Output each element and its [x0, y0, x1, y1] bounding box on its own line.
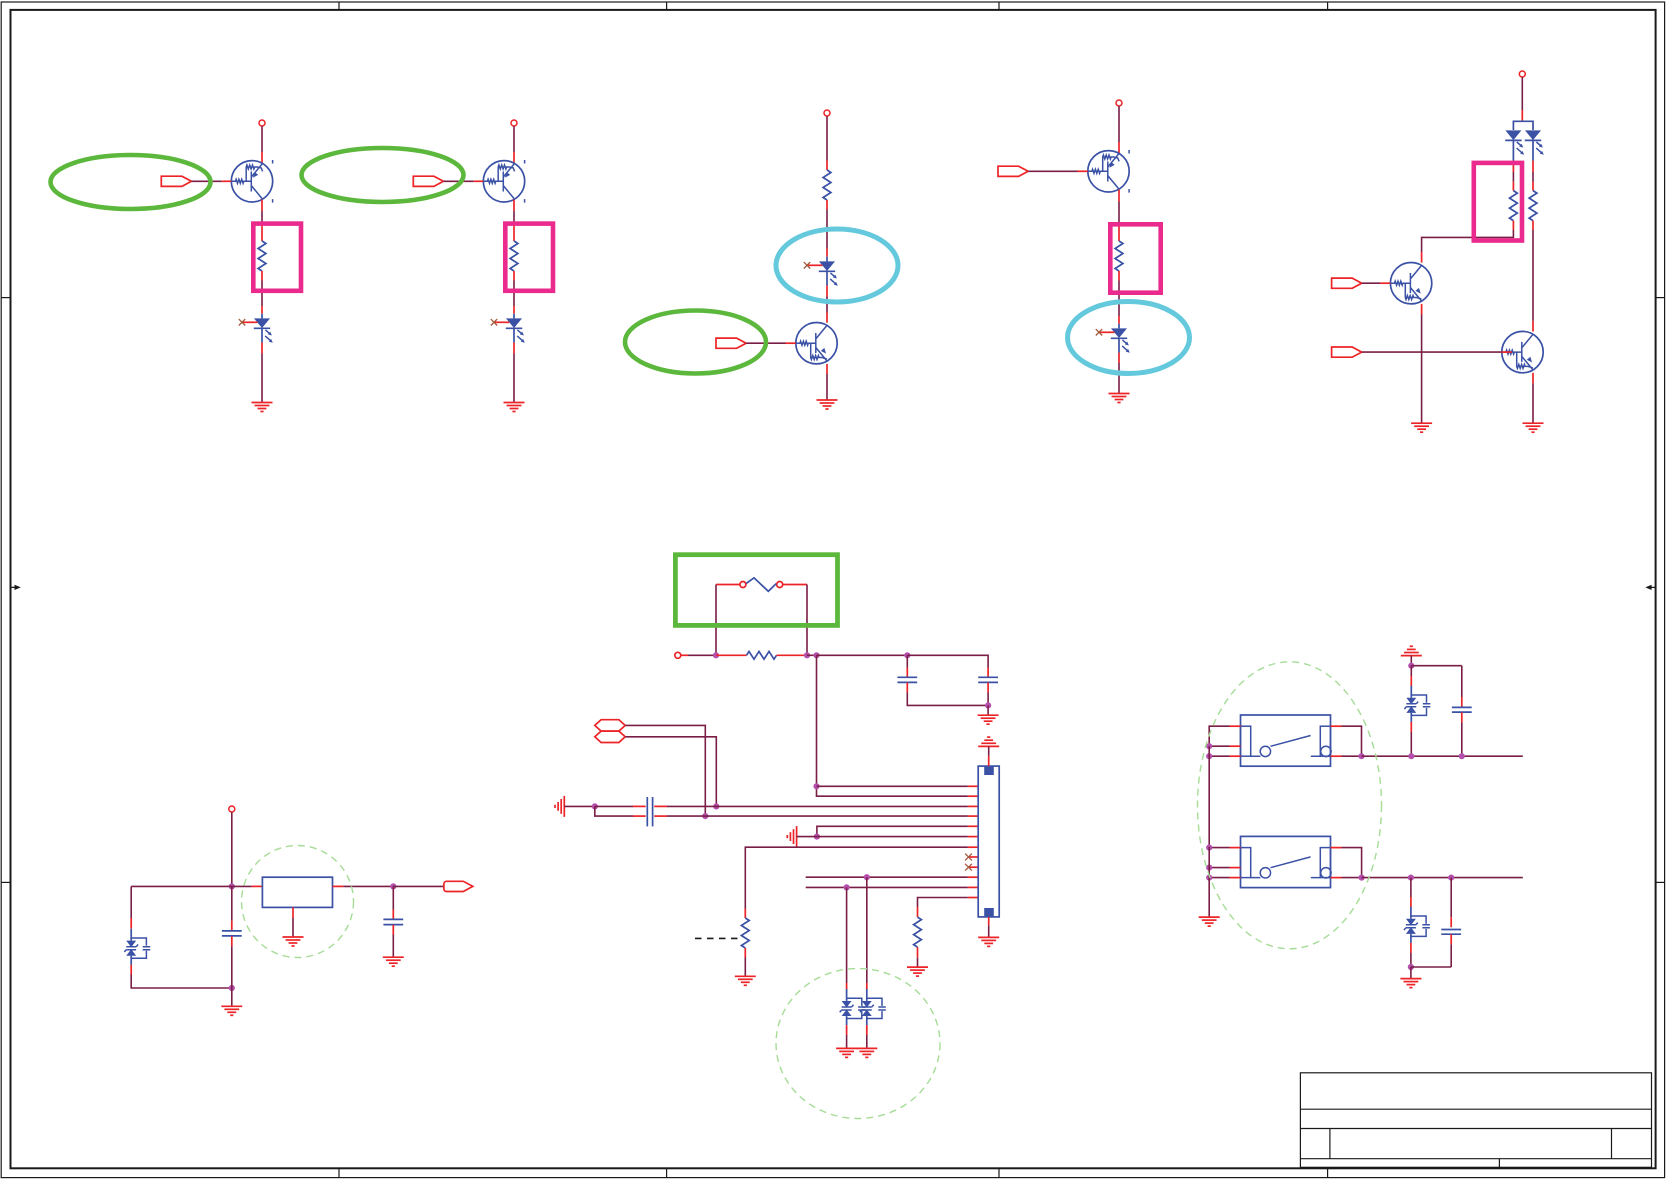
port IN1 [161, 176, 191, 186]
ground [735, 976, 756, 985]
wire [564, 805, 595, 807]
pin [513, 306, 515, 314]
highlight box (pink) around R1 [253, 224, 301, 291]
highlight ellipse (green) around IN2 [302, 148, 464, 202]
junction [864, 874, 870, 880]
port IN3 [716, 338, 746, 348]
pin [968, 815, 978, 817]
dual LED anode bridge [1513, 121, 1533, 130]
junction [702, 813, 708, 819]
pin [681, 654, 688, 656]
pin [968, 805, 978, 807]
pin [744, 909, 746, 919]
wire [130, 886, 132, 918]
wire [797, 836, 968, 838]
wire [907, 655, 988, 667]
pin [826, 286, 828, 297]
wire [688, 654, 716, 656]
wire [513, 281, 515, 307]
capacitor C8 [1452, 666, 1472, 757]
ground [817, 400, 838, 409]
wire [918, 898, 968, 908]
wire [1209, 745, 1229, 747]
junction [1206, 753, 1212, 759]
pin [261, 271, 263, 281]
wire [261, 281, 263, 307]
LED D5 [1505, 130, 1524, 160]
junction [814, 834, 820, 840]
fuse F1 [740, 578, 783, 592]
pin [261, 152, 263, 163]
ground [1199, 917, 1220, 926]
wire [1532, 230, 1534, 321]
pin [1421, 252, 1423, 263]
off-page port CANH [595, 720, 625, 731]
wire [625, 737, 716, 807]
wire [1422, 230, 1514, 252]
wire [1362, 282, 1380, 284]
pin [1410, 722, 1412, 732]
pin [1502, 351, 1512, 353]
ground [504, 403, 525, 412]
pin [786, 342, 796, 344]
wire [1521, 77, 1523, 110]
pin [716, 654, 747, 656]
pin [261, 222, 263, 242]
wire [1532, 172, 1534, 182]
pin [968, 785, 978, 787]
ground [836, 1048, 857, 1057]
pin [513, 222, 515, 242]
highlight ellipse (green) around IN3 [625, 311, 766, 374]
junction [1459, 753, 1465, 759]
junction [229, 985, 235, 991]
junction [985, 702, 991, 708]
wire [1512, 172, 1514, 182]
pin [130, 918, 132, 929]
wire [1410, 953, 1412, 967]
ground (inverted) [1401, 646, 1422, 655]
wire [261, 354, 263, 403]
junction [1358, 753, 1364, 759]
pin [1230, 867, 1241, 869]
TVS diode Z1 [840, 989, 866, 1025]
wire [1411, 665, 1462, 667]
wire [1410, 967, 1412, 978]
pin [968, 836, 978, 838]
wire [1362, 755, 1523, 757]
pin [917, 907, 919, 917]
pin [777, 654, 808, 656]
ground (rotated) [787, 826, 796, 847]
pin [826, 364, 828, 374]
port IN4 [998, 166, 1028, 176]
pin [1230, 877, 1241, 879]
pin [1532, 221, 1534, 230]
wire [1532, 383, 1534, 423]
power pin P1 [259, 120, 265, 126]
wire [846, 1035, 848, 1048]
wire [1208, 746, 1210, 847]
capacitor C2 [978, 668, 998, 693]
pin [1230, 755, 1241, 757]
pin [866, 1025, 868, 1035]
wire [988, 746, 990, 756]
pin [1410, 943, 1412, 953]
pin [261, 343, 263, 354]
pin [826, 161, 828, 171]
pin [513, 271, 515, 281]
wire [1209, 755, 1229, 757]
pin [1118, 222, 1120, 241]
junction [229, 883, 235, 889]
highlight ellipse (dashed) around SW1/SW2 [1198, 662, 1382, 949]
pin [1532, 182, 1534, 191]
wire [1028, 170, 1077, 172]
junction [813, 652, 819, 658]
pin [292, 907, 294, 918]
pin [1380, 282, 1390, 284]
junction [1408, 964, 1414, 970]
pin [1118, 316, 1120, 324]
wire [261, 126, 263, 152]
wire [1410, 732, 1412, 756]
TVS diode Z2 [860, 989, 886, 1025]
ground [978, 937, 999, 946]
junction [1206, 845, 1212, 851]
ground (inverted) [978, 737, 999, 746]
junction [844, 884, 850, 890]
wire [261, 211, 263, 222]
wire [1209, 867, 1229, 869]
wire [907, 693, 988, 706]
wire [817, 655, 968, 796]
pin [333, 885, 344, 887]
pin [1078, 170, 1088, 172]
port IN6 [1332, 347, 1362, 357]
ground [283, 937, 304, 946]
wire [595, 805, 633, 807]
wire [745, 847, 968, 908]
junction [592, 803, 598, 809]
pin [968, 886, 978, 888]
junction [804, 652, 810, 658]
ground [856, 1048, 877, 1057]
junction [713, 652, 719, 658]
capacitor C3 [633, 797, 667, 826]
pin [1421, 304, 1423, 315]
highlight box (pink) around R2 [505, 224, 553, 291]
pin [968, 897, 978, 899]
wire [744, 958, 746, 977]
wire [513, 354, 515, 403]
capacitor C9 [1441, 878, 1461, 967]
wire [1118, 106, 1120, 142]
capacitor C1 [897, 655, 917, 692]
pin [826, 249, 828, 257]
junction [1206, 865, 1212, 871]
wire [231, 988, 233, 1006]
junction [1448, 875, 1454, 881]
transistor Q4 [1088, 150, 1129, 193]
port IN5 [1332, 278, 1362, 288]
ground [221, 1006, 242, 1015]
ground [907, 967, 928, 976]
pin [1230, 745, 1241, 747]
wire [1421, 315, 1423, 424]
pin [968, 795, 978, 797]
junction [1408, 753, 1414, 759]
pin [261, 200, 263, 211]
port IN2 [413, 176, 443, 186]
wire [1209, 847, 1229, 849]
pin [826, 313, 828, 323]
wire [866, 877, 868, 983]
wire [988, 925, 990, 937]
pin [716, 584, 740, 586]
highlight ellipse (green) around IN1 [51, 155, 211, 209]
power pin P4 [1116, 100, 1122, 106]
pin [917, 947, 919, 958]
pin [1230, 725, 1241, 727]
pin [1532, 373, 1534, 384]
transistor Q6 [1502, 331, 1543, 372]
wire [1362, 877, 1523, 879]
highlight box (green) around fuse F1 [675, 555, 837, 626]
port VOUT [444, 881, 473, 891]
highlight ellipse (cyan) around D4 [1068, 302, 1190, 374]
pin [261, 306, 263, 314]
junction [1206, 743, 1212, 749]
wire [443, 180, 473, 182]
wire [807, 654, 817, 656]
junction [904, 652, 910, 658]
wire [746, 342, 785, 344]
wire [231, 812, 233, 886]
pin [1410, 897, 1412, 907]
junction [713, 803, 719, 809]
wire [625, 725, 705, 816]
wire [817, 654, 908, 656]
pin [513, 343, 515, 354]
pin [252, 885, 263, 887]
pin [988, 917, 990, 925]
annotation dashed line [695, 937, 738, 939]
wire [1208, 847, 1210, 917]
ground [383, 957, 404, 966]
TVS diode Z4 [1404, 686, 1430, 722]
ground [1400, 979, 1421, 988]
wire [131, 975, 232, 989]
wire [1209, 726, 1229, 746]
pin [1118, 142, 1120, 153]
pin [826, 200, 828, 210]
pin [1512, 221, 1514, 230]
wire [292, 918, 294, 937]
wire [1118, 202, 1120, 223]
wire [987, 705, 989, 715]
pin [968, 876, 978, 878]
TVS diode Z3 [124, 929, 150, 965]
capacitor C6 [222, 886, 242, 988]
pin [1331, 877, 1342, 879]
transistor Q5 [1390, 263, 1431, 304]
wire [866, 1035, 868, 1048]
wire [817, 826, 968, 836]
wire [1342, 755, 1362, 757]
off-page port CANL [595, 731, 625, 742]
switch SW2 [1241, 836, 1332, 887]
ground [978, 715, 999, 724]
pin [846, 983, 848, 989]
wire [667, 805, 968, 807]
pin [1512, 182, 1514, 191]
regulator U1 [262, 877, 332, 907]
wire [1342, 848, 1362, 878]
LED D1 [239, 314, 273, 343]
wire [1410, 656, 1412, 666]
transistor Q3 [796, 323, 837, 364]
wire [826, 297, 828, 313]
pin [1331, 847, 1342, 849]
wire [131, 885, 251, 887]
pin [968, 846, 978, 848]
pin [1532, 321, 1534, 332]
power pin P6 [229, 806, 235, 812]
ground [252, 403, 273, 412]
wire [1342, 726, 1362, 756]
wire [393, 885, 444, 887]
pin [222, 180, 231, 182]
capacitor C4 [633, 815, 667, 817]
highlight ellipse (cyan) around D3 [776, 229, 898, 302]
wire [846, 887, 848, 983]
pin [1118, 353, 1120, 364]
ground (rotated) [555, 796, 564, 817]
transistor Q2 [483, 160, 524, 203]
capacitor C7 [383, 886, 403, 957]
ground [1523, 423, 1544, 432]
TVS diode Z5 [1404, 907, 1430, 943]
pin [130, 965, 132, 975]
LED D4 [1096, 324, 1130, 353]
pin [513, 200, 515, 211]
LED D3 [804, 257, 838, 286]
wire [826, 374, 828, 400]
highlight circle (dashed) around Z1/Z2 [776, 969, 940, 1119]
wire [343, 885, 393, 887]
node VIN [675, 652, 681, 658]
wire [715, 585, 717, 656]
pin [1118, 271, 1120, 281]
wire [806, 876, 968, 878]
wire [1118, 281, 1120, 317]
ground [1411, 423, 1432, 432]
LED D2 [491, 314, 525, 343]
pin [1512, 161, 1514, 172]
junction [390, 883, 396, 889]
wire [513, 126, 515, 152]
pin [474, 180, 483, 182]
highlight circle (dashed) around U1 [242, 846, 354, 958]
junction [1408, 663, 1414, 669]
wire [1362, 351, 1502, 353]
ground [1109, 394, 1130, 403]
pin [1331, 725, 1342, 727]
junction [1359, 875, 1365, 881]
wire [667, 815, 968, 817]
pin [513, 152, 515, 163]
pin [988, 756, 990, 766]
wire [1342, 877, 1362, 879]
pin [846, 1025, 848, 1035]
transistor Q1 [231, 160, 272, 203]
power pin P2 [511, 120, 517, 126]
wire [917, 958, 919, 967]
wire [1209, 877, 1229, 879]
wire [826, 210, 828, 249]
wire [595, 806, 633, 816]
wire [1411, 966, 1451, 968]
junction [1408, 875, 1414, 881]
highlight box (pink) around R4 [1110, 224, 1160, 292]
pin [968, 825, 978, 827]
no-connect pin 8 [965, 854, 978, 861]
wire [817, 785, 968, 787]
pin [744, 948, 746, 958]
pin [1521, 110, 1523, 121]
wire [826, 116, 828, 160]
junction [1206, 875, 1212, 881]
wire [1410, 666, 1412, 676]
pin [1331, 755, 1342, 757]
wire [987, 693, 989, 706]
pin [1118, 190, 1120, 202]
pin [783, 584, 807, 586]
wire [191, 180, 221, 182]
highlight box (pink) around R5 [1474, 163, 1522, 241]
power pin P3 [824, 110, 830, 116]
junction [813, 783, 819, 789]
pin [1410, 676, 1412, 686]
LED D6 [1525, 130, 1544, 160]
pin [866, 983, 868, 989]
wire [1118, 363, 1120, 394]
wire [806, 886, 968, 888]
connector J1 [978, 766, 999, 917]
wire [513, 211, 515, 222]
power pin P5 [1519, 71, 1525, 77]
no-connect pin 9 [965, 864, 978, 871]
pin [1532, 161, 1534, 172]
wire [1410, 878, 1412, 897]
wire [806, 585, 808, 656]
switch SW1 [1241, 715, 1332, 766]
pin [1230, 847, 1241, 849]
